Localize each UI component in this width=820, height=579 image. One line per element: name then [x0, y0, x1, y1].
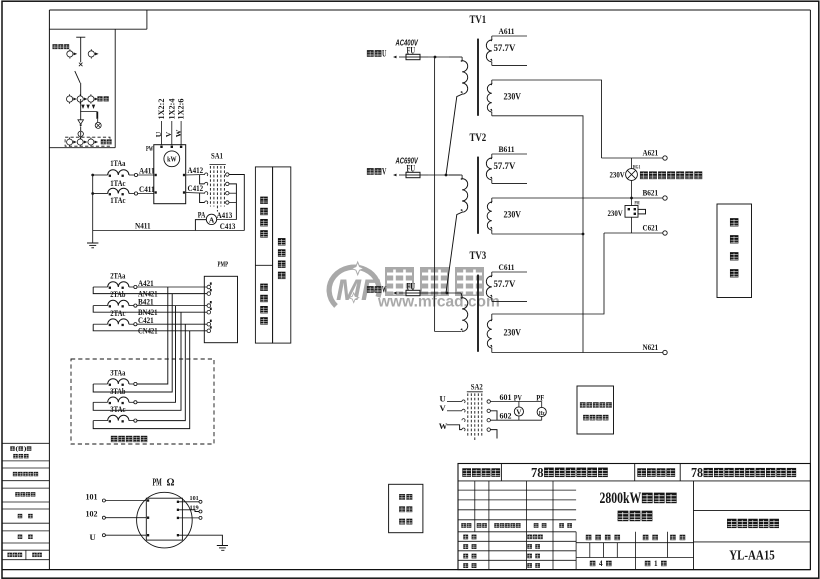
- label 船头: [97, 96, 102, 101]
- svg-text:A412: A412: [188, 166, 204, 175]
- svg-text:A: A: [209, 215, 215, 224]
- title block outline: [458, 464, 810, 570]
- svg-text:(: (: [15, 446, 18, 453]
- indicator lamp HG1: [626, 158, 638, 198]
- svg-text:N411: N411: [135, 222, 151, 231]
- svg-text:3TAb: 3TAb: [110, 387, 126, 396]
- svg-text:57.7V: 57.7V: [494, 280, 516, 290]
- svg-text:230V: 230V: [610, 171, 625, 180]
- fuse FU 母线U: [393, 54, 428, 59]
- CT 2TAc: [108, 319, 129, 324]
- label 绝缘监测回路: [399, 494, 412, 524]
- svg-text:PM: PM: [153, 478, 163, 489]
- svg-text:3TAc: 3TAc: [110, 405, 126, 414]
- meter unit PMP box: [204, 276, 237, 342]
- title block row1 cells: [458, 464, 810, 481]
- svg-text:230V: 230V: [504, 329, 522, 339]
- socket PM symbol: [625, 198, 646, 233]
- single-line cubicle box: [49, 29, 115, 148]
- CT 3TAc: [108, 415, 129, 420]
- kW meter circle: [164, 151, 180, 167]
- wire 3TAb return with riser: [93, 312, 181, 410]
- svg-text:A621: A621: [643, 148, 659, 157]
- wire U: [447, 401, 462, 403]
- transformer TV2 secondary 230V coil: [487, 198, 492, 234]
- dashed outgoing box 船尾: [65, 137, 110, 146]
- label 监视电流 vertical: [260, 284, 268, 325]
- CT 2TAa: [108, 282, 129, 287]
- selector switch SA2: [467, 392, 483, 442]
- svg-text:A421: A421: [138, 279, 154, 288]
- svg-text:AC690V: AC690V: [395, 157, 419, 166]
- transformer TV2 core: [477, 157, 479, 234]
- terminal A621: [663, 156, 667, 160]
- wire TV3 primary to bus U riser: [435, 57, 462, 332]
- left margin strip cells: [2, 443, 49, 559]
- meter circle on bus: [78, 131, 83, 139]
- svg-text:W: W: [382, 285, 386, 296]
- svg-text:78: 78: [531, 465, 544, 481]
- svg-text:U: U: [90, 532, 96, 542]
- wire TV1 230V bottom to N riser: [492, 116, 583, 353]
- CT 1TAa: [108, 170, 129, 175]
- wire ammeter right: [217, 219, 237, 221]
- svg-text:2TAa: 2TAa: [110, 272, 125, 281]
- wire 601: [490, 401, 541, 403]
- wire B611 stub: [492, 154, 527, 183]
- svg-text:1X2:2: 1X2:2: [157, 99, 166, 120]
- wire TV3 230V top to C621 riser: [492, 233, 604, 314]
- bus down with PT arrow symbol: [78, 99, 84, 131]
- transformer TV2 primary coil: [449, 175, 468, 212]
- transformer TV1 secondary 57.7V coil: [486, 36, 492, 65]
- label 电源回路 vertical: [730, 218, 738, 277]
- wire 101 input: [102, 499, 146, 502]
- SA2 row4 stub: [490, 430, 497, 439]
- label 发电机运行指示: [640, 171, 648, 179]
- svg-text:1X2:6: 1X2:6: [177, 99, 186, 120]
- bus label 母线W: [367, 286, 374, 293]
- svg-text:PV: PV: [514, 392, 523, 402]
- svg-text:102: 102: [86, 509, 98, 519]
- wire ammeter left: [195, 220, 206, 231]
- wire TV2 230V top B621: [492, 197, 663, 199]
- transformer TV2 primary down-lead diagonal: [446, 212, 462, 293]
- wire W: [447, 425, 462, 430]
- CT 3TAa: [108, 379, 129, 384]
- svg-text:C621: C621: [643, 223, 659, 232]
- node dots 1TA common: [91, 174, 94, 195]
- CT plug row3 in dashed box: [67, 137, 99, 146]
- label 测量电流 vertical: [260, 197, 268, 238]
- svg-text:4: 4: [599, 559, 603, 568]
- wire A412: [186, 174, 205, 177]
- power meter PW box: [154, 145, 186, 204]
- svg-text:57.7V: 57.7V: [494, 162, 516, 172]
- CT plug row1 left: [69, 49, 71, 58]
- svg-text:230V: 230V: [504, 93, 522, 103]
- svg-text:TV1: TV1: [470, 12, 487, 26]
- svg-text:1TAc: 1TAc: [110, 196, 126, 205]
- svg-text:C611: C611: [499, 262, 515, 272]
- wire C421: [93, 323, 207, 326]
- svg-text:kW: kW: [167, 155, 177, 164]
- svg-text:2TAc: 2TAc: [110, 309, 126, 318]
- CT plug row2: [67, 94, 99, 103]
- transformer TV1 secondary 230V coil: [487, 80, 492, 116]
- box 电源回路: [717, 204, 752, 298]
- junction dot 母线U: [434, 56, 437, 59]
- svg-text:TV3: TV3: [470, 248, 487, 262]
- stamp grid 图样标记 重量 比例: [576, 481, 693, 570]
- svg-text:V: V: [382, 167, 387, 178]
- label 船尾: [101, 139, 106, 144]
- wire 3TAb hot with riser: [93, 306, 175, 404]
- svg-text:PW: PW: [146, 144, 153, 153]
- svg-text:C411: C411: [139, 185, 155, 194]
- svg-text:SA2: SA2: [471, 382, 483, 392]
- terminal B621: [663, 196, 667, 200]
- wire 3TAc hot with riser: [93, 324, 185, 422]
- svg-text:601: 601: [500, 392, 512, 402]
- dashed box 发电机机房: [71, 359, 214, 444]
- cable arrows: [81, 105, 95, 109]
- wire A621: [602, 157, 663, 159]
- junction dot B621 branch: [630, 197, 633, 200]
- svg-text:101: 101: [86, 492, 98, 502]
- CT 1TAc: [108, 188, 129, 193]
- label 电流回路 vertical: [278, 238, 286, 279]
- bus label 母线V: [367, 168, 374, 175]
- bus wire 母线V: [428, 174, 460, 176]
- svg-text:V: V: [440, 403, 447, 413]
- svg-text:N621: N621: [643, 343, 659, 352]
- junction dot 母线W: [446, 292, 449, 295]
- svg-text:230V: 230V: [608, 209, 623, 218]
- title label 工程名称: [462, 468, 471, 477]
- watermark mfcad logo: [329, 262, 380, 307]
- ammeter PA: [206, 214, 216, 224]
- label 电压和频率测量回路: [580, 402, 612, 420]
- bus label 母线U: [367, 50, 374, 57]
- terminal C621: [663, 231, 667, 235]
- watermark 沐风网: [385, 267, 484, 296]
- CT plug row1 right: [90, 49, 92, 58]
- transformer TV3 secondary 57.7V coil: [486, 272, 492, 301]
- right column cells 二次原理图 YL-AA15: [694, 511, 811, 564]
- svg-text:C412: C412: [188, 184, 204, 193]
- circuit breaker QF: [75, 63, 83, 96]
- wire U input PM: [102, 534, 146, 537]
- svg-text:2800kW: 2800kW: [600, 490, 642, 507]
- PMP terminals: [207, 282, 212, 332]
- title label 项目名称: [637, 468, 646, 477]
- wire A421: [93, 285, 207, 288]
- label 发电机机房: [111, 436, 117, 442]
- SA1 left contacts: [205, 173, 208, 204]
- svg-text:101: 101: [190, 495, 199, 502]
- label PM ohm: [153, 478, 175, 489]
- wire AN421: [93, 287, 207, 294]
- PM terminals: [147, 499, 179, 536]
- svg-text:B421: B421: [138, 297, 154, 306]
- bus wire 母线W: [428, 292, 461, 294]
- wire 102 input: [102, 516, 146, 519]
- PW top stubs 1X2: [162, 121, 182, 145]
- box 测量电流/监视电流: [255, 167, 272, 343]
- CT 3TAb: [108, 397, 129, 402]
- PW terminals: [155, 146, 185, 194]
- box 绝缘监测回路: [389, 484, 423, 532]
- svg-text:C421: C421: [138, 316, 154, 325]
- branch wire to pilot lamp: [80, 112, 98, 123]
- wire C611 stub: [492, 272, 527, 301]
- svg-text:B621: B621: [643, 188, 659, 197]
- wire TV1 230V top to A621 riser: [492, 80, 602, 158]
- svg-text:602: 602: [500, 411, 512, 421]
- svg-text:CN421: CN421: [138, 327, 158, 336]
- svg-text:V: V: [516, 407, 522, 416]
- svg-text:W: W: [439, 421, 448, 431]
- svg-text:PMP: PMP: [218, 260, 229, 269]
- svg-text:1: 1: [654, 559, 658, 568]
- wire N621: [492, 352, 663, 354]
- svg-text:www.mfcad.com: www.mfcad.com: [377, 294, 500, 311]
- SA2 jumper rows2-3: [490, 411, 497, 420]
- wire A611 stub: [492, 36, 527, 65]
- fuse FU 母线V: [393, 172, 428, 177]
- transformer TV2 secondary 57.7V coil: [486, 154, 492, 183]
- revision mini grid: [458, 481, 576, 532]
- transformer TV1 primary coil: [449, 57, 468, 94]
- wire 3TAa return with riser: [93, 294, 172, 392]
- bus wire 母线U: [428, 56, 449, 58]
- insulation meter PM ohm: [137, 492, 193, 548]
- selector switch SA1: [209, 164, 225, 211]
- svg-text:A413: A413: [217, 211, 233, 220]
- wire 3TAa hot with riser: [93, 287, 168, 386]
- SA2 left contacts: [462, 400, 465, 431]
- wire C411: [129, 192, 154, 195]
- svg-text:YL-AA15: YL-AA15: [729, 549, 775, 564]
- switchboard cell top bar: [49, 10, 146, 29]
- svg-text:1TAa: 1TAa: [110, 159, 125, 168]
- svg-text:PF: PF: [536, 392, 544, 402]
- svg-text:A611: A611: [499, 26, 515, 36]
- svg-text:Ω: Ω: [167, 478, 175, 489]
- svg-text:119: 119: [190, 504, 200, 511]
- SA2 right contacts: [487, 400, 490, 432]
- svg-text:FU: FU: [407, 282, 416, 292]
- wire A411: [129, 173, 154, 176]
- wire CN421: [93, 324, 207, 331]
- drawing name cell 2800kW配电板 进线柜: [600, 490, 677, 521]
- voltmeter PV: [514, 402, 523, 421]
- svg-text:3TAa: 3TAa: [110, 369, 125, 378]
- svg-text:B611: B611: [499, 144, 515, 154]
- wire C412: [186, 192, 205, 195]
- svg-text:1X2:4: 1X2:4: [167, 99, 176, 120]
- svg-text:57.7V: 57.7V: [494, 44, 516, 54]
- svg-text:U: U: [154, 131, 163, 137]
- junction dot TV2 bottom: [582, 233, 585, 236]
- svg-text:A411: A411: [139, 166, 155, 175]
- SA1 right contacts: [226, 173, 229, 204]
- svg-text:AC400V: AC400V: [395, 39, 419, 48]
- svg-text:U: U: [382, 49, 386, 60]
- wire 602: [490, 419, 541, 421]
- svg-text:HG1: HG1: [633, 164, 641, 170]
- transformer TV3 secondary 230V coil: [487, 314, 492, 353]
- wire SA1 rows to A413: [229, 184, 236, 220]
- wire C621: [604, 232, 663, 234]
- frequency meter PF: [537, 402, 546, 421]
- svg-text:PM: PM: [635, 200, 640, 206]
- svg-text:W: W: [174, 129, 183, 137]
- svg-text:C413: C413: [220, 222, 236, 231]
- transformer TV1 core: [477, 39, 479, 116]
- svg-text:TV2: TV2: [470, 130, 487, 144]
- SA1 left jumpers: [200, 175, 205, 203]
- PM stub row3: [179, 516, 202, 519]
- svg-text:230V: 230V: [504, 211, 522, 221]
- label 发电机: [52, 44, 57, 49]
- ground: [87, 243, 98, 248]
- wire BN421: [93, 306, 207, 313]
- wire TV2 230V bottom: [492, 233, 583, 235]
- CT 2TAb: [108, 300, 129, 305]
- wire 3TAc return with riser: [93, 331, 190, 429]
- svg-text:Hz: Hz: [539, 410, 545, 417]
- transformer TV3 core: [477, 275, 479, 352]
- wire V: [447, 410, 462, 412]
- fuse FU 母线W: [393, 290, 428, 295]
- terminal N621: [663, 350, 667, 354]
- svg-text:PA: PA: [198, 211, 206, 220]
- wire CT commons vertical: [93, 175, 108, 243]
- transformer TV3 primary coil: [460, 293, 467, 332]
- transformer TV1 primary down-lead diagonal: [446, 94, 462, 175]
- pilot lamp: [95, 122, 101, 128]
- PM stub 119: [179, 510, 202, 513]
- svg-text:SA1: SA1: [211, 151, 223, 161]
- svg-text:2TAb: 2TAb: [110, 290, 126, 299]
- signature grid rows: [458, 532, 576, 570]
- svg-text:V: V: [164, 131, 173, 137]
- PM stub 101: [179, 500, 202, 503]
- box 电压和频率测量回路: [577, 386, 614, 434]
- wire N411: [93, 230, 245, 232]
- wire SA1 row1 to C413: [229, 175, 244, 231]
- svg-text:78: 78: [691, 465, 703, 480]
- svg-text:): ): [24, 446, 27, 453]
- box 电流回路: [273, 167, 291, 343]
- PM ground wire: [179, 535, 228, 550]
- wire B421: [93, 304, 207, 307]
- junction dot 母线V: [445, 174, 448, 177]
- labels 1X2:2 1X2:4 1X2:6 rotated: [154, 99, 186, 138]
- svg-text:1TAc: 1TAc: [110, 179, 126, 188]
- generator bus tee: [76, 37, 85, 62]
